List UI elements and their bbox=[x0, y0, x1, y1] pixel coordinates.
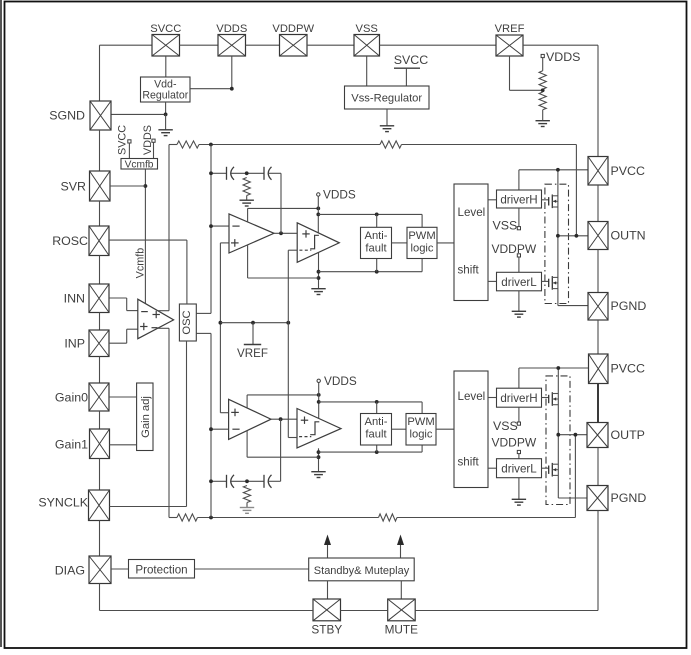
resistor divider upper bbox=[539, 71, 546, 89]
wire: VSS pad to Vss-Regulator bbox=[366, 56, 368, 86]
block Protection bbox=[129, 560, 195, 579]
wire: Anti-fault to PWM upper bbox=[392, 242, 408, 244]
wire: Level shift to driverH lower bbox=[488, 397, 497, 399]
label MUTE bbox=[385, 623, 419, 637]
wire: INN to INP bbox=[99, 313, 101, 331]
svg-text:driverH: driverH bbox=[500, 194, 537, 207]
wire: upper integrator non-inverting input bbox=[220, 242, 229, 244]
wire: Level shift to driverL lower bbox=[488, 467, 497, 469]
wire: PVCC rail to driverH lower bbox=[518, 368, 520, 388]
pad Gain1 bbox=[90, 429, 110, 459]
wire: Gain1 to Gain adj bbox=[110, 444, 137, 446]
ground below Vss-Regulator bbox=[380, 109, 394, 132]
wire: SVCC pad to Vdd-Regulator bbox=[165, 56, 167, 77]
block driverL upper bbox=[497, 272, 542, 291]
wire: lower feedback cap return bbox=[280, 419, 282, 481]
block PWM logic lower bbox=[406, 414, 436, 446]
power stage dashed box lower bbox=[546, 376, 570, 505]
junction rail C - Anti-fault lower bbox=[375, 450, 379, 454]
junction plus bus - VREF line bbox=[219, 321, 223, 325]
svg-text:OSC: OSC bbox=[181, 310, 193, 334]
svg-text:VDDS: VDDS bbox=[324, 374, 357, 388]
wire: upper rail C to PWM bottom bbox=[319, 259, 423, 272]
svg-text:Gain adj: Gain adj bbox=[140, 396, 152, 438]
svg-text:SVR: SVR bbox=[61, 180, 87, 194]
ground driverL upper bbox=[512, 291, 526, 317]
junction top line - integrator bus bbox=[209, 143, 213, 147]
wire: top bus down to SGND bbox=[99, 45, 101, 101]
label INP bbox=[64, 337, 85, 351]
block Level shift lower bbox=[454, 371, 488, 488]
svg-text:PWM: PWM bbox=[407, 416, 434, 428]
block Anti-fault upper bbox=[361, 227, 392, 258]
pad Gain0 bbox=[89, 383, 109, 411]
label VREF bbox=[495, 23, 525, 35]
wire: upper rail D bbox=[248, 277, 319, 279]
label SYNCLK bbox=[38, 496, 88, 510]
svg-text:Anti-: Anti- bbox=[364, 230, 387, 242]
wire: SYNCLK pad to OSC bottom bbox=[110, 506, 187, 508]
wire: lower supply rail A bbox=[247, 394, 319, 396]
label ROSC bbox=[52, 234, 88, 248]
wire: bottom feedback line left stub bbox=[169, 517, 177, 519]
minus sign upper integrator bbox=[232, 225, 239, 227]
SVCC supply tap to Vss-Regulator bbox=[394, 53, 428, 86]
hysteresis symbol upper bbox=[310, 235, 319, 249]
svg-text:OUTP: OUTP bbox=[611, 428, 645, 442]
wire: OUTN to PGND bbox=[597, 250, 599, 293]
label VSS bbox=[356, 23, 378, 35]
junction PVCC rail - bridge upper bbox=[556, 168, 560, 172]
junction lower rail A - VDDS bbox=[317, 393, 321, 397]
wire: Gain0 to Gain1 bbox=[99, 411, 101, 429]
dashed minus lower comparator bbox=[299, 436, 311, 438]
label PVCC lower bbox=[611, 362, 645, 376]
minus sign input amp out- bbox=[152, 327, 158, 329]
label SVCC bbox=[150, 23, 181, 35]
op-amp lower integrator bbox=[229, 399, 271, 439]
label DIAG bbox=[55, 564, 85, 578]
wire: bus to lower cap1 bbox=[211, 480, 227, 482]
label VDDS bbox=[216, 23, 247, 35]
block Vss-Regulator bbox=[345, 86, 430, 109]
svg-text:Gain1: Gain1 bbox=[55, 438, 88, 452]
label SGND bbox=[49, 109, 85, 123]
wire: VDDPW to VSS bbox=[307, 44, 354, 46]
pad SVCC bbox=[152, 35, 180, 57]
wire: SVCC to VDDS bbox=[180, 44, 219, 46]
wire: VREF line bbox=[220, 322, 288, 324]
pad OUTP bbox=[587, 423, 608, 448]
wire: lower opamp top supply stub bbox=[246, 395, 248, 408]
junction bridge - OUTP bbox=[556, 433, 560, 437]
label VDDS rotated bbox=[142, 125, 154, 155]
wire: ROSC to INN bbox=[99, 256, 101, 285]
resistor feedback bottom bbox=[379, 514, 398, 521]
power stage dashed box upper bbox=[545, 184, 569, 303]
ground upper comparator bbox=[311, 289, 325, 295]
svg-text:Gain0: Gain0 bbox=[55, 391, 88, 405]
wire: half-bridge bus upper bbox=[557, 170, 559, 306]
ground lower comparator bbox=[311, 472, 325, 478]
ground below Vdd-Regulator bbox=[158, 114, 172, 135]
block Anti-fault lower bbox=[361, 414, 392, 446]
wire: PGND down to bottom bus bbox=[597, 511, 599, 611]
junction lower integrator output bbox=[279, 417, 283, 421]
svg-text:VDDS: VDDS bbox=[323, 188, 356, 202]
svg-text:VSS: VSS bbox=[493, 419, 518, 433]
arrow mute up bbox=[397, 535, 404, 559]
resistor input top bbox=[177, 141, 199, 148]
pad ROSC bbox=[89, 226, 109, 256]
svg-text:VREF: VREF bbox=[495, 23, 525, 35]
block driverL lower bbox=[497, 459, 542, 478]
wire: upper supply rail B to PWM bbox=[318, 214, 422, 227]
wire: integrator bus lower bbox=[210, 333, 212, 517]
wire: right feedback bus from OUTN bbox=[575, 145, 577, 236]
junction rail B - Anti-fault bbox=[375, 213, 379, 217]
svg-text:Level: Level bbox=[458, 206, 486, 219]
wire: rail B to Anti-fault top lower bbox=[376, 402, 378, 414]
junction lower rail B - VDDS bbox=[317, 400, 321, 404]
junction upper cap mid bbox=[245, 171, 249, 175]
wire: OSC output upper bbox=[196, 312, 211, 314]
junction divider midpoint bbox=[541, 88, 545, 92]
pad SYNCLK bbox=[89, 490, 110, 521]
block PWM logic upper bbox=[407, 227, 437, 258]
wire: bottom feedback line right bbox=[397, 517, 575, 519]
wire: left bus to SVCC pad bbox=[100, 44, 153, 46]
svg-text:Standby& Muteplay: Standby& Muteplay bbox=[314, 565, 410, 577]
pad VSS bbox=[354, 35, 380, 57]
wire: PVCC rail to driverH upper bbox=[518, 170, 520, 190]
label Gain1 bbox=[55, 438, 88, 452]
svg-text:Protection: Protection bbox=[135, 564, 187, 577]
pad OUTN bbox=[588, 222, 608, 250]
resistor divider lower bbox=[539, 92, 546, 110]
junction upper integrator output bbox=[279, 231, 283, 235]
svg-text:driverL: driverL bbox=[501, 276, 537, 289]
wire: Vcmfb output bus down to input amp bbox=[144, 169, 146, 304]
capacitor upper C1 bbox=[227, 167, 235, 180]
wire: driverH to VSS terminal upper bbox=[518, 208, 520, 227]
svg-text:SGND: SGND bbox=[49, 109, 85, 123]
terminal VSS upper bbox=[493, 219, 521, 233]
wire: OSC bottom to SYNCLK line bbox=[186, 341, 188, 507]
wire: SYNCLK to DIAG bbox=[99, 521, 101, 557]
svg-text:SYNCLK: SYNCLK bbox=[38, 496, 88, 510]
svg-text:Anti-: Anti- bbox=[364, 416, 387, 428]
svg-text:logic: logic bbox=[410, 243, 433, 255]
wire: upper comparator ground stem bbox=[318, 253, 320, 289]
block Gain adj bbox=[137, 383, 153, 451]
svg-text:PGND: PGND bbox=[611, 299, 647, 313]
minus sign input amp in- bbox=[141, 311, 148, 313]
wire: PVCC to OUTP thick bbox=[597, 384, 599, 423]
svg-text:VDDPW: VDDPW bbox=[492, 242, 537, 256]
junction bus - upper integrator in- bbox=[209, 224, 213, 228]
arrow standby up bbox=[324, 535, 331, 559]
wire: upper opamp bottom to rail D bbox=[247, 245, 249, 278]
wire: OUTN tap bbox=[558, 235, 588, 237]
node VREF reference symbol bbox=[244, 323, 261, 345]
wire: Vdd-Regulator output to VDDS pad bbox=[190, 56, 232, 89]
wire: VDDPW terminal to driverL lower bbox=[518, 454, 520, 459]
transistor low-side lower bbox=[542, 463, 559, 477]
wire: Standby block to STBY pad bbox=[327, 581, 329, 599]
wire: upper feedback cap return bbox=[280, 173, 282, 233]
junction OUTP - feedback bus bbox=[574, 433, 578, 437]
wire: SVR pad to Vcmfb bus bbox=[110, 185, 145, 187]
junction SGND node bbox=[164, 113, 168, 117]
wire: DIAG down to bottom bus bbox=[99, 584, 101, 611]
wire: lower comparator minus input bbox=[288, 437, 297, 439]
resistor upper cap mid to ground bbox=[243, 178, 250, 196]
resistor lower cap mid to ground bbox=[243, 486, 250, 503]
svg-text:VSS: VSS bbox=[356, 23, 378, 35]
transistor low-side upper bbox=[542, 276, 559, 290]
minus sign lower integrator bbox=[232, 428, 239, 430]
wire: bus to upper cap1 bbox=[211, 172, 227, 174]
wire: Anti-fault to PWM lower bbox=[392, 428, 407, 430]
block Vdd-Regulator bbox=[141, 77, 191, 102]
svg-text:Level: Level bbox=[458, 390, 486, 403]
svg-text:SVCC: SVCC bbox=[394, 53, 428, 67]
wire: SVR to ROSC bbox=[99, 201, 101, 226]
wire: lower rail C to PWM bottom bbox=[319, 445, 423, 452]
pad PGND upper bbox=[588, 293, 608, 321]
wire: right feedback bus from OUTP bbox=[574, 435, 576, 518]
junction lower cap mid bbox=[245, 479, 249, 483]
wire: lower supply rail B to PWM bbox=[319, 402, 422, 414]
label SVR bbox=[61, 180, 87, 194]
capacitor lower C2 bbox=[264, 475, 272, 488]
pad PGND lower bbox=[587, 486, 608, 511]
junction VREF tap bbox=[251, 321, 255, 325]
block OSC oscillator bbox=[179, 304, 196, 341]
junction bus - lower integrator in- bbox=[209, 427, 213, 431]
wire: PVCC to OUTN bbox=[597, 185, 599, 222]
transistor high-side lower bbox=[542, 392, 559, 406]
wire: OSC output lower bbox=[196, 332, 211, 334]
svg-text:INN: INN bbox=[64, 292, 85, 306]
pad INN bbox=[89, 284, 109, 313]
op-amp input differential amplifier bbox=[138, 299, 174, 339]
junction lower rail C bbox=[317, 450, 321, 454]
svg-text:VDDS: VDDS bbox=[546, 50, 580, 64]
wire: Level shift to driverH upper bbox=[488, 199, 497, 201]
wire: lower integrator output to comparator bbox=[271, 418, 297, 420]
wire: INN to input amp inverting input bbox=[109, 298, 138, 311]
pad SGND bbox=[90, 101, 111, 130]
wire: PVCC rail lower bbox=[519, 367, 589, 369]
terminal VDDS divider top bbox=[541, 50, 580, 64]
wire: Anti-fault bottom to rail C lower bbox=[376, 445, 378, 452]
wire: top feedback line right bbox=[402, 144, 577, 146]
terminal VSS lower bbox=[493, 419, 521, 433]
plus sign lower integrator bbox=[231, 409, 239, 417]
wire: lower cap middle node bbox=[231, 480, 264, 482]
label Vcmfb rotated on bus bbox=[135, 248, 147, 279]
wire: Gain1 to SYNCLK bbox=[99, 459, 101, 491]
plus sign upper integrator bbox=[231, 239, 239, 247]
wire: MUTE to right bus bbox=[415, 610, 598, 612]
wire: Vdd-Regulator to ground node bbox=[165, 102, 167, 114]
block Vcmfb bbox=[121, 159, 158, 171]
wire: PWM to Level shift lower bbox=[436, 428, 454, 430]
wire: upper integrator output to comparator bbox=[274, 232, 297, 234]
label PGND lower bbox=[611, 491, 647, 505]
wire: lower integrator non-inverting input bbox=[220, 412, 228, 414]
ground below divider bbox=[536, 110, 550, 127]
junction bridge - OUTN bbox=[556, 234, 560, 238]
svg-text:SVCC: SVCC bbox=[116, 125, 128, 155]
svg-text:PVCC: PVCC bbox=[611, 362, 645, 376]
wire: PGND to PVCC lower bbox=[597, 320, 599, 354]
svg-text:VDDPW: VDDPW bbox=[492, 435, 537, 449]
wire: input amp out- stub bbox=[158, 327, 169, 329]
wire: lower cap2 to output bbox=[268, 480, 280, 482]
svg-text:PWM: PWM bbox=[408, 230, 435, 242]
ground lower cap network bbox=[240, 503, 254, 514]
pad VDDPW bbox=[280, 35, 308, 57]
junction rail B - VDDS bbox=[316, 213, 320, 217]
terminal SVCC of Vcmfb bbox=[128, 140, 131, 159]
svg-text:OUTN: OUTN bbox=[611, 229, 646, 243]
wire: ROSC line down to OSC top bbox=[186, 240, 188, 304]
svg-text:DIAG: DIAG bbox=[55, 564, 85, 578]
wire: VDDPW terminal to driverL upper bbox=[518, 257, 520, 272]
op-amp upper integrator bbox=[229, 214, 274, 253]
wire: Gain0 to Gain adj bbox=[109, 396, 137, 398]
wire: INP to Gain0 bbox=[99, 357, 101, 384]
pad PVCC upper bbox=[588, 157, 608, 186]
wire: lower opamp bottom to rail D bbox=[246, 431, 248, 458]
pad VREF bbox=[496, 35, 523, 56]
label STBY bbox=[311, 623, 342, 637]
svg-text:Regulator: Regulator bbox=[142, 90, 188, 102]
resistor feedback top bbox=[380, 141, 402, 148]
pad MUTE bbox=[388, 599, 416, 621]
plus sign input amp in+ bbox=[140, 323, 147, 330]
svg-text:PVCC: PVCC bbox=[611, 164, 645, 178]
wire: top feedback line left stub bbox=[169, 144, 177, 146]
wire: VDDS vertical lower bbox=[318, 383, 320, 419]
svg-text:SVCC: SVCC bbox=[150, 23, 181, 35]
svg-text:STBY: STBY bbox=[311, 623, 342, 637]
junction upper rail C bbox=[317, 270, 321, 274]
wire: PVCC rail upper bbox=[519, 169, 588, 171]
svg-text:PGND: PGND bbox=[611, 491, 647, 505]
wire: Standby block to MUTE pad bbox=[400, 581, 402, 599]
wire: OUTP tap bbox=[558, 434, 587, 436]
wire: SGND pad to ground node bbox=[111, 113, 166, 115]
terminal VDDS lower bbox=[317, 374, 357, 388]
wire: left feedback bus upper segment bbox=[168, 145, 170, 311]
svg-text:VDDS: VDDS bbox=[216, 23, 247, 35]
wire: Protection to Standby block bbox=[195, 568, 309, 570]
scan edge line left bbox=[0, 0, 2, 647]
wire: top feedback line middle bbox=[199, 144, 380, 146]
wire: VDDS terminal to resistor bbox=[542, 58, 544, 71]
junction rail C - Anti-fault bbox=[375, 270, 379, 274]
wire: lower integrator inverting input bbox=[211, 428, 229, 430]
label OUTP bbox=[611, 428, 645, 442]
svg-text:driverH: driverH bbox=[500, 392, 537, 405]
junction bus - lower cap line bbox=[209, 479, 213, 483]
wire: lower rail D bbox=[247, 456, 318, 458]
wire: OUTP to PGND lower bbox=[597, 448, 599, 486]
junction Vcmfb-SVR bbox=[144, 184, 148, 188]
wire: VREF pad to divider midpoint bbox=[510, 56, 543, 90]
svg-text:logic: logic bbox=[409, 429, 432, 441]
wire: lower comparator ground stem bbox=[318, 448, 320, 471]
label VREF mid bbox=[237, 347, 268, 360]
svg-text:ROSC: ROSC bbox=[52, 234, 88, 248]
wire: INP to input amp non-inverting input bbox=[109, 329, 138, 343]
pad VDDS bbox=[218, 35, 246, 57]
ground upper cap network bbox=[240, 196, 254, 207]
svg-text:VSS: VSS bbox=[493, 219, 518, 233]
wire: VDDS to VDDPW bbox=[246, 44, 280, 46]
terminal VDDS of Vcmfb bbox=[152, 139, 155, 158]
comparator lower with hysteresis bbox=[297, 409, 341, 448]
wire: ROSC pad to OSC bbox=[109, 239, 187, 241]
junction comparator minus bus - VREF bbox=[286, 321, 290, 325]
svg-text:INP: INP bbox=[64, 337, 85, 351]
label VDDPW bbox=[272, 23, 314, 35]
label SVCC rotated bbox=[116, 125, 128, 155]
resistor input bottom bbox=[177, 514, 198, 521]
wire: STBY to MUTE bbox=[341, 610, 388, 612]
block driverH upper bbox=[497, 190, 542, 208]
wire: bottom feedback line middle bbox=[198, 517, 379, 519]
terminal VDDPW lower bbox=[492, 435, 537, 453]
wire: driverH to VSS terminal lower bbox=[518, 407, 520, 422]
label PVCC upper bbox=[611, 164, 645, 178]
wire: PWM to Level shift upper bbox=[437, 242, 454, 244]
dashed minus upper comparator bbox=[299, 249, 311, 251]
wire: half-bridge bus lower bbox=[557, 368, 559, 498]
wire: non-inverting inputs bus bbox=[219, 243, 221, 413]
wire: Anti-fault bottom to rail C bbox=[376, 259, 378, 272]
wire: rail B to Anti-fault top bbox=[376, 214, 378, 227]
junction rail A - VDDS bbox=[316, 207, 320, 211]
junction bus - upper cap line bbox=[209, 171, 213, 175]
wire: VSS to VREF bbox=[380, 44, 497, 46]
plus sign lower comparator bbox=[301, 417, 308, 424]
wire: upper cap2 to output bbox=[268, 172, 281, 174]
junction under VDDS bbox=[230, 87, 234, 91]
wire: upper cap middle node bbox=[231, 172, 264, 174]
pad PVCC lower bbox=[589, 354, 609, 384]
wire: upper comparator minus input bbox=[288, 249, 297, 251]
svg-text:Vss-Regulator: Vss-Regulator bbox=[351, 93, 422, 105]
wire: upper integrator inverting input bbox=[211, 225, 229, 227]
pad SVR bbox=[90, 171, 111, 201]
plus sign input amp out+ bbox=[153, 311, 160, 318]
svg-text:shift: shift bbox=[458, 456, 480, 469]
capacitor lower C1 bbox=[227, 475, 235, 488]
svg-text:fault: fault bbox=[365, 429, 387, 441]
wire: input amp out+ stub bbox=[158, 310, 169, 312]
wire: upper supply rail A bbox=[248, 207, 319, 209]
block Level shift upper bbox=[454, 184, 488, 301]
capacitor upper C2 bbox=[264, 167, 272, 180]
wire: VDDS vertical upper bbox=[317, 196, 319, 233]
transistor high-side upper bbox=[542, 195, 559, 209]
wire: PGND rail lower bbox=[558, 497, 587, 499]
